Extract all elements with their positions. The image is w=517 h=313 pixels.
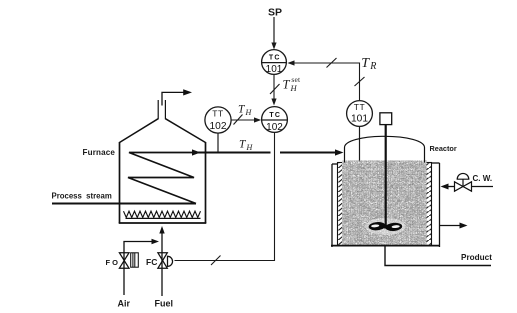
tap wire TT101 into reactor	[359, 127, 361, 163]
svg-text:H: H	[290, 83, 298, 93]
svg-text:TT: TT	[212, 109, 223, 119]
svg-text:102: 102	[266, 122, 283, 133]
svg-text:T: T	[361, 56, 370, 71]
svg-text:TC: TC	[269, 55, 281, 62]
transmitter TT102	[205, 107, 231, 133]
tap wire TT102 to process line	[217, 134, 219, 153]
reactor dome	[345, 136, 425, 162]
svg-text:Product: Product	[461, 253, 492, 262]
vent line	[162, 92, 185, 105]
svg-text:101: 101	[266, 64, 283, 75]
burner sawtooth	[124, 211, 201, 217]
impeller halo	[366, 218, 406, 235]
svg-text:SP: SP	[268, 7, 282, 19]
controller TC102	[262, 107, 288, 133]
svg-text:102: 102	[210, 121, 227, 132]
svg-text:Reactor: Reactor	[430, 144, 457, 153]
svg-text:FC: FC	[146, 257, 157, 267]
air line	[124, 242, 154, 296]
valve FO (vertical hourglass)	[119, 253, 129, 268]
product line	[385, 246, 491, 266]
process line furnace to reactor (T_H)	[196, 152, 338, 154]
signal wire TC102 to FC valve	[175, 133, 275, 266]
svg-text:TC: TC	[269, 112, 281, 119]
process stream inlet line	[52, 203, 196, 205]
CW valve	[455, 173, 472, 191]
fuel line with arrow into furnace	[161, 230, 163, 296]
chimney stack	[158, 100, 165, 119]
coil zigzag	[128, 153, 196, 204]
CW inlet line and arrow	[472, 186, 494, 188]
agitator motor	[380, 113, 392, 125]
svg-text:C. W.: C. W.	[473, 174, 493, 183]
reactor interior stipple	[344, 163, 425, 245]
svg-text:R: R	[369, 61, 376, 72]
valve FC (vertical hourglass)	[158, 253, 173, 268]
svg-text:Process stream: Process stream	[52, 192, 112, 201]
agitator shaft	[385, 125, 387, 227]
svg-text:Air: Air	[118, 299, 131, 309]
svg-text:Furnace: Furnace	[83, 148, 116, 157]
svg-text:TT: TT	[354, 102, 365, 112]
arrow into reactor	[335, 149, 344, 155]
transmitter TT101	[347, 101, 373, 127]
furnace hood	[120, 119, 206, 143]
signal wire TR from TT101 to TC101	[293, 58, 365, 100]
orifice rectangle beside FO	[131, 253, 139, 267]
controller TC101	[261, 50, 287, 76]
vent arrow	[183, 89, 192, 95]
burner base line	[126, 217, 201, 219]
reactor hatched wall right	[425, 163, 432, 246]
wire SP to TC101	[271, 17, 276, 50]
svg-text:set: set	[291, 75, 301, 84]
svg-text:Fuel: Fuel	[155, 299, 174, 309]
signal wire TC101 to TC102	[270, 75, 280, 100]
reactor outer jacket	[332, 163, 440, 247]
reactor bottom	[331, 245, 440, 247]
impeller	[368, 221, 402, 231]
svg-text:F O: F O	[106, 258, 119, 267]
furnace body	[119, 142, 207, 223]
svg-text:T: T	[283, 78, 291, 92]
svg-text:101: 101	[351, 113, 368, 124]
reactor hatched wall left	[338, 163, 345, 246]
arrow inside furnace	[192, 149, 201, 155]
signal wire TT102 to TC102	[231, 115, 256, 125]
CW outlet line and arrow	[440, 225, 463, 227]
